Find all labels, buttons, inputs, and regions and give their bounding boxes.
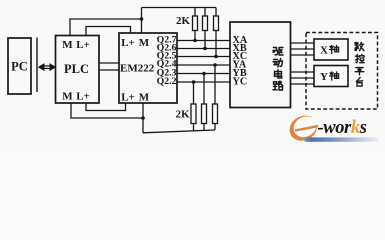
bottom wiring: PLC L+ to EM222 L+ <box>86 103 126 111</box>
wire Q2.6-XB <box>177 48 230 50</box>
bottom wiring: PLC M to EM222 M and rail <box>71 103 143 118</box>
wire PLC-EM222 bus lower <box>99 69 119 71</box>
svg-text:L+: L+ <box>121 91 135 103</box>
svg-text:X: X <box>320 45 328 57</box>
box PLC <box>56 36 100 104</box>
svg-text:M: M <box>62 39 73 51</box>
stray vertical line right of PC <box>36 38 38 93</box>
box drive circuit <box>230 22 291 108</box>
label 数控平台 vertical <box>355 42 364 86</box>
数 <box>355 42 364 50</box>
svg-text:EM222: EM222 <box>120 63 155 75</box>
台 <box>356 77 362 86</box>
svg-text:2K: 2K <box>175 109 190 121</box>
bottom rail <box>143 130 215 133</box>
box EM222 <box>119 33 177 103</box>
电 <box>275 70 282 78</box>
e-works logo: blue bar <box>305 137 379 141</box>
top supply rail <box>142 7 217 9</box>
svg-text:M: M <box>139 37 150 49</box>
resistor bottom R6 <box>192 80 196 84</box>
svg-text:L+: L+ <box>121 37 135 49</box>
svg-text:L+: L+ <box>76 91 90 103</box>
wire XA drive to X axis motor <box>291 42 315 44</box>
wire PLC-EM222 bus upper <box>99 62 119 64</box>
svg-text:PC: PC <box>11 60 28 74</box>
svg-text:PLC: PLC <box>64 62 89 76</box>
e-works logo: e swoosh <box>285 111 322 146</box>
wire XC drive to X axis motor <box>291 54 315 56</box>
resistor bottom R5 <box>202 72 206 76</box>
wire YB drive to Y axis motor <box>291 77 315 79</box>
动 <box>273 59 283 68</box>
svg-text:YC: YC <box>233 77 248 88</box>
驱 <box>273 48 283 56</box>
resistor top R1 <box>194 8 196 17</box>
wire Q2.7-XA <box>177 40 230 42</box>
svg-text:-works: -works <box>318 118 367 138</box>
resistor bottom R4 <box>213 63 217 67</box>
轴 of X轴 <box>329 45 338 53</box>
box PC <box>8 38 31 94</box>
bidirectional arrow PC-PLC <box>39 64 55 70</box>
box X axis <box>314 39 348 60</box>
wire YA drive to Y axis motor <box>291 71 315 73</box>
svg-text:M: M <box>62 91 73 103</box>
dashed box CNC platform <box>306 33 378 110</box>
resistor top R3 <box>215 8 217 17</box>
平 <box>355 68 364 75</box>
svg-text:M: M <box>139 91 150 103</box>
resistor top R2 <box>204 8 206 17</box>
box Y axis <box>314 66 348 87</box>
路 <box>273 81 283 90</box>
控 <box>355 54 364 62</box>
wire Q2.4-YA <box>177 64 230 66</box>
wire Q2.5-XC <box>177 56 230 58</box>
wire XB drive to X axis motor <box>291 48 315 50</box>
svg-text:Q2.2: Q2.2 <box>157 76 177 87</box>
top wiring: PLC L+ to EM222 L+ <box>86 27 131 36</box>
轴 of Y轴 <box>329 72 338 80</box>
wire Q2.2-YC <box>177 81 230 83</box>
label 驱动电路 vertical <box>273 48 283 91</box>
svg-text:2K: 2K <box>176 15 191 27</box>
wire YC drive to Y axis motor <box>291 83 315 85</box>
wire Q2.3-YB <box>177 73 230 75</box>
svg-text:Y: Y <box>320 71 328 83</box>
top wiring: PLC M to rail and EM222 M <box>70 19 142 36</box>
svg-text:L+: L+ <box>76 39 90 51</box>
